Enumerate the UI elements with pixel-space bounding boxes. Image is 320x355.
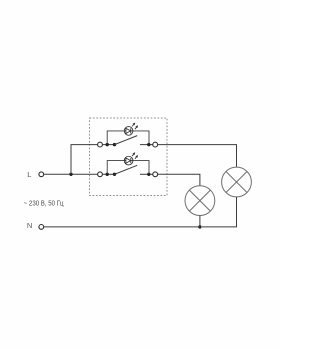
junction upper output bbox=[147, 143, 150, 146]
wire upper output stub bbox=[140, 144, 153, 146]
terminal N bbox=[39, 225, 44, 230]
lamp EL1 bbox=[185, 186, 215, 216]
LED2 emission arrows bbox=[132, 152, 138, 159]
junction on N wire bbox=[198, 225, 201, 228]
wire lamp EL2 to N bbox=[202, 197, 237, 227]
switch blade lower bbox=[115, 165, 138, 174]
wire lower route to lamp EL1 bbox=[158, 174, 200, 185]
wire riser to upper switch bbox=[71, 145, 97, 175]
svg-text:L: L bbox=[27, 170, 31, 179]
indicator LED HL1 bbox=[124, 127, 133, 136]
wire N bbox=[44, 226, 200, 228]
switch enclosure dashed box bbox=[90, 118, 168, 196]
wire L feed bbox=[44, 173, 98, 175]
terminal L bbox=[39, 172, 44, 177]
wire lower indicator branch bbox=[107, 161, 124, 175]
wire upper indicator branch bbox=[107, 131, 124, 145]
wire lower output stub bbox=[140, 173, 153, 175]
wire upper route to lamp EL2 bbox=[158, 145, 237, 168]
wire upper common bbox=[103, 144, 115, 146]
junction lower blade pivot bbox=[113, 173, 116, 176]
junction upper blade pivot bbox=[113, 143, 116, 146]
terminal lower-left bbox=[98, 172, 103, 177]
lamp EL2 bbox=[222, 167, 252, 197]
terminal lower-right bbox=[153, 172, 158, 177]
junction lower output bbox=[147, 173, 150, 176]
junction on L wire bbox=[69, 173, 72, 176]
junction lower lamp tap bbox=[106, 173, 109, 176]
junction upper lamp tap bbox=[106, 143, 109, 146]
svg-text:~ 230 В, 50 Гц: ~ 230 В, 50 Гц bbox=[24, 199, 64, 208]
wire lamp EL1 to N bbox=[199, 216, 201, 227]
terminal upper-right bbox=[153, 142, 158, 147]
terminal upper-left bbox=[98, 142, 103, 147]
indicator LED HL2 bbox=[124, 156, 133, 165]
LED1 emission arrows bbox=[132, 123, 138, 130]
switch blade upper bbox=[115, 136, 138, 145]
wire lower common bbox=[103, 173, 115, 175]
svg-text:N: N bbox=[27, 221, 32, 230]
